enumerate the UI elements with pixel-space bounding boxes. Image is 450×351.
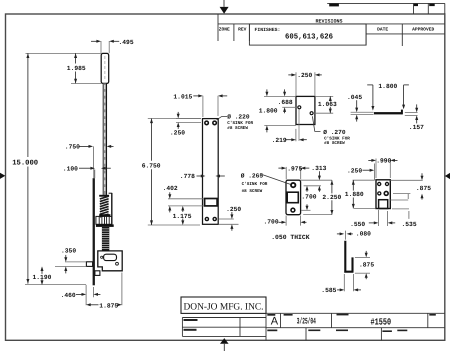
svg-text:.875: .875 [416,185,431,192]
dim .688 arrows [283,92,286,97]
ext line lower hole [313,112,333,114]
svg-text:.402: .402 [163,185,178,192]
dim .402 ext lines [168,198,204,200]
svg-text:1.880: 1.880 [345,191,364,198]
strike top hole [290,182,296,188]
svg-text:1.875: 1.875 [99,303,118,310]
revisions header band bottom line [218,23,445,25]
svg-text:2.250: 2.250 [322,194,341,201]
weight label mark [382,330,392,332]
dim .700 arrows [306,186,309,191]
right center mark [445,173,450,179]
guide hole lower [310,111,314,115]
svg-text:.250: .250 [170,130,185,137]
strike plate [286,180,301,215]
svg-text:.313: .313 [311,165,326,172]
dim .100 arrows [79,167,91,169]
svg-text:.250: .250 [226,206,241,213]
spring housing top cap [99,195,109,197]
dim .778 arrows [197,175,202,177]
svg-text:.550: .550 [350,221,365,228]
dim .250 ext lines bottom right [219,218,234,220]
dim 1.875 line [86,303,91,306]
svg-text:.250: .250 [347,168,362,175]
bottom bracket plate [98,251,122,271]
dim .550 .535 ext lines [378,210,380,226]
revisions clipped text marks [329,4,339,7]
knob [101,53,109,83]
strip edge view [374,112,402,114]
dim .250 arrows bottom [230,214,233,219]
dim 1.880 ext lines [353,179,375,181]
svg-text:.535: .535 [402,221,417,228]
approved label mark [184,329,197,331]
ext tick right of plate [407,194,409,199]
svg-text:.250: .250 [297,72,312,79]
svg-text:DATE: DATE [377,27,388,33]
dim 1.015 ext lines [202,96,204,117]
dim .250 ext lines [295,72,297,95]
bracket slot [104,254,117,260]
designed label mark [184,319,198,321]
dim .250 arrows [177,114,180,119]
strip plate [203,119,219,225]
dim .585 ext lines [343,274,345,291]
dim 1.800 brackets [367,84,373,86]
left center mark [0,173,5,179]
dim 6.750 ext lines [148,118,201,120]
svg-text:1.015: 1.015 [173,94,192,101]
strip bottom hole left [205,217,210,222]
dim .250 arrow [363,169,370,171]
callout leader to top hole [217,117,227,120]
svg-text:.585: .585 [321,287,336,294]
callout leader to top hole [261,174,290,184]
dim .350 ext lines [65,261,86,263]
dim .875 arrows [421,176,424,181]
ext line bottom hole [301,209,311,211]
ext line notch top [390,199,408,201]
strip top hole right [212,120,217,125]
dim .402 arrows [168,194,171,199]
svg-text:C'SINK FOR: C'SINK FOR [242,181,268,187]
guide hole bottom left [377,191,381,195]
ext line plate bottom right [303,214,332,216]
dim .045 ext lines [351,111,374,113]
svg-text:.778: .778 [180,173,195,180]
guide hole top left [377,182,381,186]
svg-text:Ø .270: Ø .270 [323,129,346,136]
company name box [181,297,266,313]
svg-text:#8 SCREW: #8 SCREW [324,141,345,146]
svg-text:.350: .350 [61,248,76,255]
ext line plate top right [315,95,333,97]
dim .045 arrows [355,108,358,113]
bracket hole [116,262,119,265]
dim .975 arrows [278,167,282,169]
dim .313 arrows [318,176,321,181]
strip bottom hole right [212,217,217,222]
channel edge view [344,241,353,272]
tab [86,262,92,267]
svg-text:.700: .700 [264,219,279,226]
svg-text:Ø .265: Ø .265 [241,173,264,180]
svg-text:A: A [271,315,279,327]
svg-text:1.175: 1.175 [173,213,192,220]
ext line knob bottom [71,82,101,84]
row2 label mark [336,330,348,332]
svg-text:.460: .460 [61,292,76,299]
dim .875 arrows [365,253,368,258]
dim .495 arrows [96,40,101,43]
ext line plate top left [264,95,296,97]
callout leader lower hole [312,116,320,131]
bracket foot [95,271,100,276]
dim .700 arrows bottom [279,221,283,223]
title block verticals [181,318,183,337]
guide block [96,216,112,224]
ext line plate bottom [264,124,296,126]
ext line plate bottom right [392,208,409,210]
scale label mark [267,330,277,332]
dim .080 arrows [337,233,340,235]
svg-text:.219: .219 [272,137,287,144]
guide plate [296,96,315,124]
svg-text:.495: .495 [119,39,134,46]
svg-text:#8 SCREW: #8 SCREW [242,189,263,194]
dim .460 arrows [76,293,83,295]
svg-text:.875: .875 [359,261,374,268]
dim .250 ext line [373,164,375,181]
svg-text:1.800: 1.800 [378,83,397,90]
guide hole bottom right [383,191,389,197]
svg-text:.045: .045 [347,94,362,101]
spring housing bottom cap [99,214,110,216]
svg-text:ZONE: ZONE [219,27,230,33]
dim .250 ext lines top left [176,117,201,119]
dim .080 ext line [344,231,346,240]
svg-text:3/25/04: 3/25/04 [297,317,316,327]
svg-text:.700: .700 [301,193,316,200]
svg-text:APPROVED: APPROVED [412,27,434,33]
face bar top stub [93,170,95,179]
dim .585 arrows [337,289,341,291]
dim .219 arrows [285,139,292,141]
release date label mark [308,330,320,332]
dim .219 ext lines [295,129,297,141]
rod [103,83,107,194]
dim .535 arrow [388,221,393,224]
dim 1.063 line [329,96,331,101]
svg-text:.750: .750 [65,144,80,151]
svg-text:#8 SCREW: #8 SCREW [227,126,248,131]
dim .550 arrow [369,222,374,224]
svg-text:.688: .688 [278,99,293,106]
finishes box [249,24,366,45]
guide block heavy bar [96,224,114,227]
dim .495 ext lines [100,41,102,53]
rev label mark [429,314,436,316]
svg-text:.975: .975 [287,166,302,173]
strip slot [205,199,218,206]
strike square cutout [287,192,298,203]
svg-text:REV: REV [238,27,247,33]
spring housing right wall [111,193,113,226]
revisions table left edge [217,14,219,41]
dim .350 arrows [64,257,67,262]
dim .750 arrows [80,145,89,147]
ext tick bottom right [408,211,410,219]
svg-text:#1550: #1550 [371,317,392,328]
revisions clipped verticals [413,3,415,14]
dim .750 ext line [92,146,94,169]
face bar [93,178,95,285]
guide hole upper [297,105,301,109]
rod centerline [104,85,106,192]
svg-text:6.750: 6.750 [142,163,161,170]
ext line bar bottom left [25,284,86,286]
dim .157 arrows [415,108,418,113]
dim 1.015 arrows [193,95,199,97]
date approved dividers [365,24,367,46]
dim .250 arrows [288,74,292,76]
zone rev dividers [233,24,235,41]
dim 1.175 line [181,206,184,211]
dim 6.750 line [151,119,153,161]
sheet label mark [397,330,407,332]
dim .875 ext lines [355,256,370,258]
dim .975 ext lines [285,167,287,180]
svg-text:1.985: 1.985 [67,65,86,72]
guide notch [379,200,388,209]
svg-text:15.000: 15.000 [12,159,38,167]
dim 15.000 line [27,53,29,157]
date label mark [284,314,293,316]
svg-text:1.063: 1.063 [318,101,337,108]
dim 1.880 line [352,180,354,191]
dim .875 ext lines [390,179,422,181]
dim .990 ext lines [375,159,377,179]
svg-text:1.800: 1.800 [259,108,278,115]
dim .990 arrows [368,159,372,161]
bracket small hole [101,256,103,258]
knob centerline [104,56,106,81]
bottom center mark [220,338,229,344]
svg-text:DON-JO MFG. INC.: DON-JO MFG. INC. [184,302,264,313]
svg-text:.100: .100 [63,165,78,172]
part no label mark [337,314,349,316]
dim 1.875 ext line [121,273,123,306]
revisions clipped top row line [327,2,445,4]
dim .460 ext lines [85,285,87,305]
dim 1.800 arrows [265,92,268,97]
dim .157 ext lines [405,111,418,113]
ext line top hole [304,185,321,187]
bottom guide plate [376,180,390,209]
date approved row line [366,33,445,35]
size label mark [267,314,275,316]
dim 1.985 line [75,53,77,63]
threaded rod [102,227,109,251]
strip top hole left [204,120,209,125]
dim 2.250 line [331,180,333,193]
strike bottom hole [290,207,295,212]
dim 1.190 arrows [41,266,44,271]
ext line upper hole [282,106,297,108]
spring coils hatch [100,196,109,199]
top center mark [220,7,229,14]
svg-text:Ø .220: Ø .220 [227,114,250,121]
svg-text:.080: .080 [356,231,371,238]
svg-text:605,613,626: 605,613,626 [285,33,333,42]
svg-text:FINISHES:: FINISHES: [255,27,281,33]
dim .700 ext lines bottom [285,216,287,226]
svg-text:.990: .990 [376,157,391,164]
title block row lines [266,312,445,314]
svg-text:.050 THICK: .050 THICK [271,234,310,241]
guide hole top right [385,182,389,186]
ext line knob top [26,52,102,54]
svg-text:.157: .157 [409,124,424,131]
ext line plate top right [301,179,332,181]
